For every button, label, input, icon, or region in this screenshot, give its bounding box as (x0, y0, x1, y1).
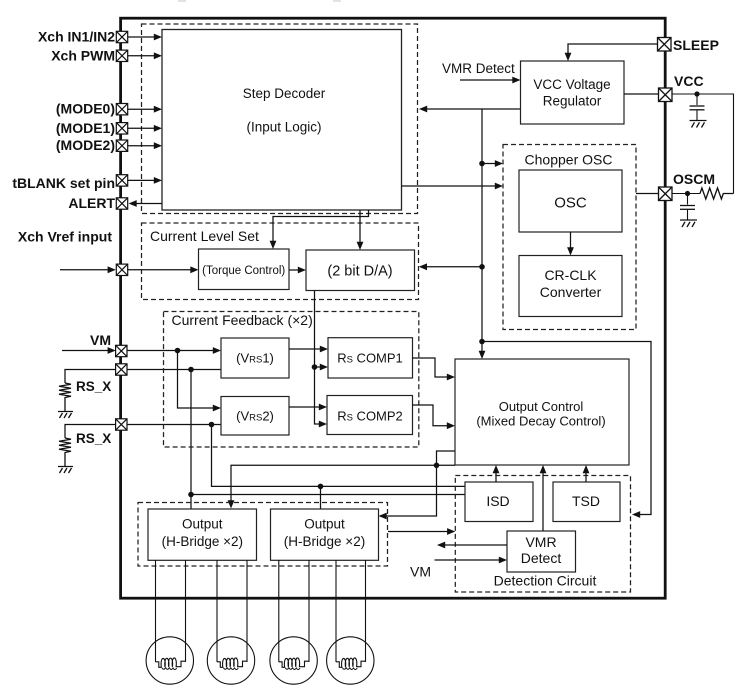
pin MODE2 (116, 140, 127, 151)
node RS sense 1 (188, 367, 194, 373)
svg-text:Current Feedback (×2): Current Feedback (×2) (172, 312, 313, 328)
step decoder dashed container (142, 24, 418, 214)
wire VRS1 to Rs COMP1 (289, 346, 328, 353)
pin VCC (659, 88, 673, 102)
svg-text:RS COMP2: RS COMP2 (337, 409, 403, 424)
wire RS_X upper pin to VRS1 lower input (127, 369, 221, 371)
node output control bottom-left branch (434, 463, 440, 469)
wire step decoder to torque control (270, 210, 369, 249)
wire motor output B1 (216, 560, 218, 662)
svg-text:(VRS2): (VRS2) (236, 409, 274, 424)
wire step decoder to chopper osc (402, 183, 504, 190)
pin VM (116, 345, 127, 356)
wire OSC to CR-CLK (567, 232, 574, 256)
svg-text:Output: Output (304, 516, 345, 531)
svg-text:RS COMP1: RS COMP1 (337, 351, 403, 366)
pin tBLANK (116, 175, 127, 186)
wire 2 bit D/A output down (315, 291, 321, 425)
svg-text:(MODE0): (MODE0) (56, 101, 115, 117)
wire RS_X upper pin to resistor (65, 370, 116, 384)
wire RS sense 2 down and right to ISD (212, 425, 466, 487)
wire output control to H-bridges (H1) (231, 465, 455, 502)
svg-text:Step Decoder: Step Decoder (243, 86, 326, 101)
wire torque control to 2 bit D/A (289, 267, 306, 274)
wire VM branch down to VRS2 (178, 351, 222, 412)
node VCC rail chopper branch (479, 161, 485, 167)
node VM branch (175, 348, 181, 354)
wire OSCM external (672, 193, 700, 195)
wire Rs COMP1 to output control (413, 358, 456, 380)
Rs COMP1 box (328, 338, 413, 378)
step decoder U1 box (162, 30, 402, 211)
wire pin Vref to torque control (128, 266, 199, 273)
wire VCC rail into chopper osc (482, 160, 503, 167)
output H-bridge box 1 (148, 509, 257, 560)
pin OSCM (659, 187, 673, 201)
wire pin IN1/IN2 to step decoder (128, 34, 162, 41)
wire motor output A1 (155, 560, 157, 662)
wire pin MODE0 to step decoder (128, 106, 162, 113)
pin RS_X upper (116, 364, 127, 375)
Rs COMP2 box (327, 396, 413, 435)
wire step decoder to pin ALERT (129, 200, 163, 207)
pin MODE0 (116, 104, 127, 115)
svg-text:VM: VM (90, 332, 111, 348)
wire internal VCC rail down (481, 109, 483, 353)
resistor R sense 2 (59, 438, 71, 466)
node VCC rail right branch (479, 339, 485, 345)
torque control box (199, 249, 290, 290)
svg-text:(2 bit D/A): (2 bit D/A) (327, 264, 392, 280)
wire RS sense 1 to ISD (191, 494, 465, 496)
resistor R OSCM (700, 188, 734, 199)
svg-text:VMR: VMR (525, 534, 556, 550)
ground below R sense 1 (58, 412, 73, 419)
wire pin tBLANK to step decoder (128, 177, 162, 184)
node RS sense 2 (209, 422, 215, 428)
svg-text:VMR Detect: VMR Detect (442, 61, 515, 76)
OSC box (519, 170, 622, 232)
current level set dashed container (142, 223, 419, 300)
wire VM pin to VRS1 (127, 347, 221, 354)
pin Xch PWM (116, 50, 127, 61)
wire motor output D2 (365, 560, 367, 662)
svg-text:Chopper OSC: Chopper OSC (525, 152, 613, 168)
node VCC external (694, 91, 699, 96)
wire motor output D1 (335, 560, 337, 662)
wire external into pin Vref (60, 266, 116, 273)
wire VMR detect output left (437, 542, 507, 549)
current feedback dashed container (164, 312, 419, 448)
svg-text:VCC: VCC (674, 73, 704, 89)
wire regulator output left (419, 106, 521, 113)
wire RS_X lower pin to VRS2 lower input (127, 424, 221, 426)
ISD box (465, 482, 533, 522)
svg-text:Output: Output (182, 516, 223, 531)
VMR detect box (507, 531, 576, 572)
output H-bridge box 2 (271, 509, 379, 560)
wire VMR detect into regulator (460, 77, 521, 84)
svg-text:Detect: Detect (521, 550, 562, 566)
wire VCC external (672, 94, 734, 194)
VRS2 box (221, 397, 289, 436)
svg-text:(VRS1): (VRS1) (236, 351, 274, 366)
wire right branch to detection circuit (482, 342, 651, 518)
svg-text:Xch IN1/IN2: Xch IN1/IN2 (38, 29, 115, 45)
H-bridge dashed container (138, 503, 388, 567)
node D/A output branch (312, 364, 318, 370)
motor coil 2 (207, 637, 254, 684)
cropped text remnant top (178, 0, 341, 2)
wire pin MODE1 to step decoder (128, 125, 162, 132)
motor coil 3 (270, 637, 317, 684)
wire RS sense 1 into Output1 top (190, 495, 192, 509)
wire VM into VMR detect (435, 557, 508, 564)
ground below C VCC (690, 121, 707, 128)
wire external into pin VM (62, 347, 116, 354)
wire chopper to OSCM pin (636, 193, 659, 195)
wire RS_X lower pin to resistor (65, 425, 116, 439)
node RS sense 1 lower (188, 492, 194, 498)
wire motor output C1 (278, 560, 280, 662)
arrow into Output1 top (228, 500, 235, 508)
wire VRS2 to Rs COMP2 (289, 404, 327, 411)
IC outer boundary (121, 18, 666, 598)
svg-text:VM: VM (410, 564, 431, 580)
pin RS_X lower (116, 419, 127, 430)
node VCC rail 2bit D/A branch (479, 264, 485, 270)
wire VMR detect to output control (540, 465, 547, 531)
svg-text:(MODE2): (MODE2) (56, 137, 115, 153)
svg-text:Detection Circuit: Detection Circuit (494, 572, 597, 588)
wire control down to Output2 right edge (379, 465, 437, 519)
svg-text:OSCM: OSCM (673, 171, 715, 187)
pin Xch IN1/IN2 (116, 31, 127, 42)
svg-text:(MODE1): (MODE1) (56, 120, 115, 136)
svg-text:Converter: Converter (540, 284, 602, 300)
node RS sense 2 lower (318, 484, 324, 490)
TSD box (553, 482, 620, 522)
CR-CLK converter box (519, 256, 622, 317)
detection circuit dashed container (455, 476, 630, 593)
wire pin PWM to step decoder (128, 52, 162, 59)
svg-text:tBLANK set pin: tBLANK set pin (12, 175, 115, 191)
svg-text:Xch Vref input: Xch Vref input (18, 229, 112, 245)
svg-text:TSD: TSD (572, 493, 600, 509)
motor coil 1 (146, 637, 193, 684)
wire regulator to VCC pin (624, 93, 659, 95)
wire step decoder to 2 bit D/A (357, 210, 364, 250)
svg-text:(H-Bridge ×2): (H-Bridge ×2) (284, 534, 365, 549)
capacitor C OSCM (680, 194, 695, 220)
wire motor output A2 (185, 560, 187, 662)
svg-text:Xch PWM: Xch PWM (51, 47, 115, 63)
svg-text:Current Level Set: Current Level Set (150, 228, 259, 244)
arrow VCC rail into output control (479, 351, 486, 359)
svg-text:RS_X: RS_X (76, 431, 111, 446)
wire motor output B2 (246, 560, 248, 662)
svg-text:SLEEP: SLEEP (673, 37, 719, 53)
svg-text:Output Control: Output Control (499, 399, 584, 414)
svg-text:RS_X: RS_X (76, 379, 111, 394)
wire pin MODE2 to step decoder (128, 142, 162, 149)
svg-text:Regulator: Regulator (543, 93, 602, 108)
wire H-bridge container to detection container (388, 528, 455, 535)
svg-text:(Torque Control): (Torque Control) (202, 265, 285, 277)
wire TSD to output control (583, 465, 590, 482)
wire RS sense 2 into Output2 top (320, 486, 322, 509)
wire ISD to output control (493, 465, 500, 482)
ground below C OSCM (680, 220, 697, 227)
output control box (455, 359, 629, 465)
capacitor C VCC (690, 94, 705, 120)
svg-text:(Mixed Decay Control): (Mixed Decay Control) (476, 414, 605, 429)
wire Rs COMP2 to output control (413, 405, 456, 429)
svg-text:VCC Voltage: VCC Voltage (533, 77, 610, 92)
pin SLEEP (658, 38, 672, 52)
pin Xch Vref (116, 264, 127, 275)
svg-text:CR-CLK: CR-CLK (544, 267, 597, 283)
2 bit D/A box (306, 250, 415, 291)
wire SLEEP pin to regulator (565, 44, 658, 61)
node OSCM external (685, 191, 690, 196)
svg-text:ISD: ISD (486, 493, 509, 509)
chopper osc dashed container (503, 145, 636, 330)
pin ALERT (116, 198, 127, 209)
wire output control left stub (437, 451, 455, 465)
VRS1 box (221, 338, 289, 378)
svg-text:(Input Logic): (Input Logic) (246, 120, 321, 135)
svg-text:OSC: OSC (554, 195, 587, 212)
wire motor output C2 (308, 560, 310, 662)
wire D/A branch into Rs COMP1 (315, 364, 329, 371)
ground below R sense 2 (58, 467, 73, 474)
resistor R sense 1 (59, 383, 71, 411)
arrow D/A into Rs COMP2 (319, 421, 327, 428)
pin MODE1 (116, 123, 127, 134)
wire RS sense 1 down (190, 370, 192, 495)
svg-text:ALERT: ALERT (68, 195, 115, 211)
motor coil 4 (327, 637, 374, 684)
svg-text:(H-Bridge ×2): (H-Bridge ×2) (162, 534, 243, 549)
VCC voltage regulator box (521, 61, 625, 124)
wire into current level set right edge (419, 263, 482, 270)
